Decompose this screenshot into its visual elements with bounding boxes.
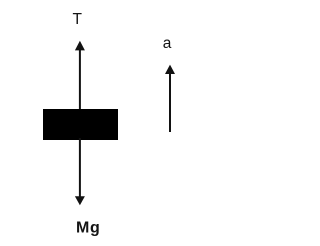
tension arrow (up): [75, 41, 85, 112]
label T: [72, 11, 82, 28]
svg-text:T: T: [72, 11, 82, 28]
label a: [163, 35, 172, 52]
weight arrow (down): [75, 138, 85, 205]
mass block: [43, 109, 118, 140]
label Mg: [76, 220, 101, 237]
svg-text:a: a: [163, 35, 172, 52]
acceleration arrow a (up, right side): [165, 65, 175, 132]
svg-text:Mg: Mg: [76, 220, 101, 237]
